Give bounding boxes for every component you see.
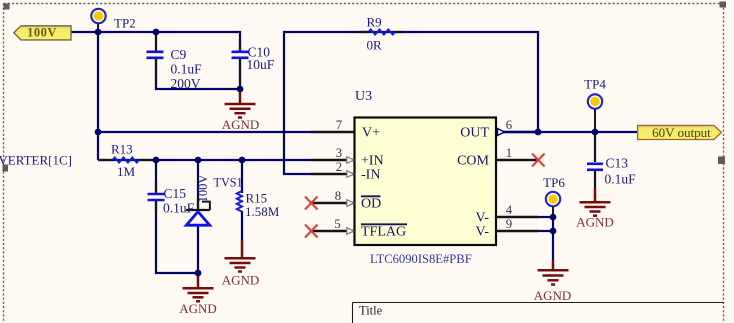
pin 2 -IN xyxy=(312,160,381,183)
junction at OUT / R9 feedback xyxy=(535,129,542,136)
wire C15 lead xyxy=(155,160,157,194)
wire C15 bottom xyxy=(156,199,198,273)
wire C9 top lead xyxy=(155,32,157,52)
op-amp U3 body xyxy=(355,118,497,246)
junction at TP2 / 100V rail xyxy=(95,29,102,36)
port 60V output xyxy=(638,125,722,140)
svg-text:C13: C13 xyxy=(606,156,629,171)
junction at pin9 xyxy=(550,228,557,235)
svg-text:TP2: TP2 xyxy=(114,16,136,31)
capacitor C13 xyxy=(587,132,636,189)
svg-text:LTC6090IS8E#PBF: LTC6090IS8E#PBF xyxy=(370,252,472,266)
title block xyxy=(353,303,724,323)
junction at TP4 / C13 xyxy=(592,129,599,136)
pin 6 OUT xyxy=(460,118,538,141)
wire TP2 stub xyxy=(97,24,99,33)
no-connect X pin 8 xyxy=(305,197,318,210)
pin 4 V- xyxy=(476,203,539,226)
svg-text:C9: C9 xyxy=(171,47,187,62)
svg-text:10uF: 10uF xyxy=(247,57,275,72)
svg-text:0.1uF: 0.1uF xyxy=(163,201,195,216)
testpoint TP4 xyxy=(584,77,606,109)
svg-text:4: 4 xyxy=(506,203,513,217)
svg-text:R9: R9 xyxy=(367,14,382,29)
svg-text:3: 3 xyxy=(336,146,342,160)
svg-text:AGND: AGND xyxy=(534,288,572,303)
svg-text:AGND: AGND xyxy=(576,215,614,230)
svg-text:8: 8 xyxy=(335,189,341,203)
resistor R9 xyxy=(359,14,404,52)
svg-text:0.1uF: 0.1uF xyxy=(171,62,203,77)
svg-text:100V: 100V xyxy=(196,175,210,203)
svg-text:AGND: AGND xyxy=(179,301,217,316)
testpoint TP6 xyxy=(543,175,565,206)
svg-text:1.58M: 1.58M xyxy=(245,204,280,219)
svg-text:V+: V+ xyxy=(362,126,380,141)
wire R9 feedback loop xyxy=(284,32,538,174)
junction at C9 top xyxy=(153,29,160,36)
pin 9 V- xyxy=(476,217,539,240)
resistor R13 xyxy=(99,142,153,180)
svg-text:OUT: OUT xyxy=(460,126,489,141)
resistor R15 xyxy=(237,191,280,220)
svg-text:TFLAG: TFLAG xyxy=(361,225,406,240)
wire TP6 stub xyxy=(552,206,554,217)
ground AGND under C13 xyxy=(580,188,611,216)
svg-text:6: 6 xyxy=(506,118,513,132)
wire pin9 to ground xyxy=(538,230,553,232)
no-connect X pin 5 xyxy=(305,225,318,238)
svg-text:V-: V- xyxy=(476,225,490,240)
svg-text:Title: Title xyxy=(359,304,383,318)
testpoint TP2 xyxy=(91,9,135,31)
capacitor C9 xyxy=(147,47,203,91)
svg-text:OD: OD xyxy=(361,197,381,212)
wire TVS top lead xyxy=(197,160,199,210)
junction at R15 top xyxy=(239,157,246,164)
TVS diode TVS1 xyxy=(186,175,243,226)
wire R15 top lead xyxy=(241,160,243,193)
junction at TVS1 top xyxy=(195,157,202,164)
junction at V+ feed tap xyxy=(95,129,102,136)
junction at C15/TVS1 bottom xyxy=(195,270,202,277)
pin 3 +IN xyxy=(312,146,384,169)
port 100V xyxy=(14,26,71,40)
svg-text:AGND: AGND xyxy=(222,273,260,288)
pin 7 V+ xyxy=(312,118,381,141)
junction at C10 bottom / AGND xyxy=(237,86,244,93)
svg-text:0.1uF: 0.1uF xyxy=(605,172,637,187)
wire TP4 stub xyxy=(594,109,596,132)
svg-text:TP4: TP4 xyxy=(584,77,606,92)
pin 1 COM xyxy=(457,146,538,169)
svg-text:7: 7 xyxy=(336,118,343,132)
svg-text:TVS1: TVS1 xyxy=(214,176,243,190)
capacitor C15 xyxy=(148,186,195,216)
svg-text:C15: C15 xyxy=(164,186,187,201)
junction at C15 top xyxy=(153,157,160,164)
wire TP2 vertical xyxy=(97,32,99,160)
wire TVS bottom lead xyxy=(197,225,199,273)
wire OUT row xyxy=(496,131,638,133)
svg-text:1: 1 xyxy=(506,146,512,160)
no-connect X pin 1 xyxy=(532,154,545,167)
svg-text:NVERTER[1C]: NVERTER[1C] xyxy=(0,152,72,167)
svg-text:+IN: +IN xyxy=(361,154,384,169)
wire +IN row xyxy=(98,159,312,161)
ground AGND under C10 xyxy=(225,90,256,118)
svg-text:60V output: 60V output xyxy=(652,125,711,140)
wire C9 bottom to C10 bottom xyxy=(156,58,240,89)
pin 5 TFLAG xyxy=(312,217,408,240)
svg-text:1M: 1M xyxy=(117,164,136,179)
svg-text:0R: 0R xyxy=(367,37,383,52)
svg-text:2: 2 xyxy=(336,160,342,174)
svg-text:-IN: -IN xyxy=(361,168,380,183)
wire R15 bottom lead xyxy=(241,211,243,240)
svg-text:AGND: AGND xyxy=(222,117,260,132)
junction at TP6 / pin4 xyxy=(550,214,557,221)
svg-text:R13: R13 xyxy=(111,142,133,157)
wire TP6 vertical to ground xyxy=(552,217,554,261)
ground AGND under TVS/C15 xyxy=(183,274,214,301)
capacitor C10 xyxy=(232,45,275,73)
svg-text:COM: COM xyxy=(457,154,489,169)
svg-text:5: 5 xyxy=(334,217,340,231)
svg-text:9: 9 xyxy=(506,217,512,231)
wire C10 top lead xyxy=(239,31,241,51)
svg-text:TP6: TP6 xyxy=(543,175,565,190)
wire 100V rail xyxy=(71,31,240,33)
wire V+ feed xyxy=(98,131,312,133)
svg-text:200V: 200V xyxy=(171,76,201,91)
ground AGND under TP6 xyxy=(538,260,569,285)
svg-text:100V: 100V xyxy=(27,26,57,40)
svg-text:V-: V- xyxy=(476,211,490,226)
svg-text:U3: U3 xyxy=(355,89,372,104)
wire pin4 to TP6 xyxy=(538,216,553,218)
ground AGND under R15 xyxy=(225,240,256,272)
pin 8 OD xyxy=(312,189,382,212)
